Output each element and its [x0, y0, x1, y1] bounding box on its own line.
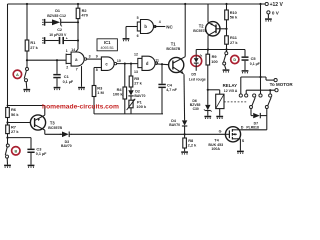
wire gate b out NC [154, 24, 173, 29]
svg-text:12: 12 [134, 52, 138, 56]
node junction R2 rail [77, 3, 79, 5]
relay RE1 coil [216, 83, 238, 108]
wire R3 to lower bus [93, 97, 95, 114]
ground C3 [28, 165, 35, 168]
wire relay linkage (dashed) [224, 101, 248, 103]
transistor T3 [30, 115, 62, 130]
ground D1 (left) [42, 19, 45, 26]
wire R9 down [207, 65, 209, 105]
wire output node [196, 49, 245, 51]
svg-text:BC547B: BC547B [166, 47, 180, 51]
op-amp IC1 gate c [101, 57, 116, 71]
pin 2 label [66, 66, 68, 70]
switch S2 (D) [223, 52, 228, 70]
watermark homemade-circuits.com [42, 103, 119, 110]
svg-text:D5: D5 [191, 73, 196, 77]
wire T2 emitter to rail [207, 4, 209, 22]
svg-text:BAV70: BAV70 [134, 94, 145, 98]
ground switch D [223, 70, 230, 73]
svg-text:5: 5 [137, 16, 139, 20]
relay contact arm 2 [265, 97, 271, 108]
wire T3 emitter feed [7, 105, 45, 116]
svg-text:BAV70: BAV70 [61, 144, 72, 148]
wire C1 to ground [56, 78, 58, 87]
pin 14 label [71, 48, 75, 52]
wire node to C5 [244, 50, 246, 57]
ground R8 [181, 152, 188, 155]
zener diode D6 [190, 99, 212, 111]
svg-text:NC: NC [166, 24, 173, 29]
contact terminal open (arm1 target) [253, 94, 256, 97]
resistor R5 [129, 76, 142, 87]
wire timing bus [94, 113, 163, 115]
svg-text:7: 7 [76, 67, 78, 71]
ground D6 [204, 117, 211, 120]
svg-text:D2: D2 [135, 90, 140, 94]
ground C2 (left) [42, 37, 45, 44]
wire R4 top [124, 64, 126, 87]
wire C2 left [45, 40, 59, 42]
terminal motor 1 [274, 79, 277, 82]
pin 6 label [137, 34, 139, 38]
svg-text:1: 1 [66, 49, 68, 53]
svg-text:PLR818: PLR818 [246, 126, 259, 130]
svg-text:T3: T3 [50, 120, 56, 125]
wire pin 8 input [94, 67, 101, 69]
wire gate a out to gate c [87, 58, 102, 60]
wire T2 collector to node [207, 35, 209, 50]
wire D2 to P1 [130, 96, 132, 100]
svg-text:56 k: 56 k [230, 15, 238, 20]
wire arm2 to drain line [266, 109, 268, 130]
resistor R4 [113, 87, 127, 99]
wire left +12V rail [7, 4, 9, 108]
wire gate d out to T1 base [156, 63, 169, 65]
wire C2 to R2 line [64, 39, 79, 41]
wire C5 to ground [244, 61, 246, 70]
wire C4 to timing bus [161, 88, 163, 114]
terminal motor 2 [275, 89, 278, 92]
capacitor C4 [158, 83, 177, 93]
svg-text:4,7 nF: 4,7 nF [166, 88, 177, 92]
IC1 label box [97, 39, 117, 51]
resistor R7 [6, 125, 20, 135]
pin 12 label [134, 52, 138, 56]
terminal +12 V [265, 2, 283, 8]
wire +12V top rail [8, 3, 266, 5]
svg-text:To MOTOR: To MOTOR [270, 82, 294, 87]
svg-text:G: G [219, 130, 222, 134]
svg-text:T1: T1 [171, 42, 177, 47]
op-amp IC1 gate b [126, 20, 156, 39]
svg-text:BC557B: BC557B [193, 29, 207, 33]
wire C1 drop [56, 60, 58, 74]
svg-text:27 k: 27 k [230, 40, 238, 45]
capacitor C4 tap [161, 64, 163, 84]
pin 11 label [155, 59, 159, 63]
resistor R8 [183, 134, 197, 148]
svg-text:0 V: 0 V [272, 10, 280, 15]
pin 4 label [159, 20, 161, 24]
ground C1 [54, 88, 61, 91]
svg-text:9: 9 [96, 55, 98, 59]
svg-text:0,1 µF: 0,1 µF [63, 80, 74, 84]
resistor R6 [6, 107, 20, 117]
wire R11 to node [225, 44, 227, 51]
node D marker [231, 55, 239, 63]
contact terminal m2 left [245, 94, 248, 97]
capacitor C1 [53, 74, 74, 84]
wire T1 emitter to D4 [183, 74, 186, 120]
ground C5 [242, 71, 249, 74]
transistor T1 [166, 42, 185, 74]
svg-text:BC557B: BC557B [48, 126, 62, 130]
potentiometer P1 [127, 99, 147, 110]
wire T1 collector to rail [184, 4, 186, 57]
wire R4 bottom [124, 99, 126, 114]
svg-text:D: D [241, 125, 244, 129]
wire to relay coil [208, 90, 220, 94]
svg-text:10 µF/25 V: 10 µF/25 V [49, 33, 67, 37]
wire motor 2 line [246, 89, 275, 94]
wire contact bridge [241, 77, 274, 94]
pin 1 label [66, 49, 68, 53]
switch S1 (A) [24, 68, 28, 89]
svg-text:RELAY: RELAY [223, 83, 238, 88]
wire R2 to IC pin 14 [75, 19, 78, 53]
svg-text:13: 13 [134, 70, 138, 74]
capacitor C5 [242, 56, 261, 66]
wire +12 feed down [259, 4, 261, 94]
svg-text:3: 3 [89, 54, 91, 58]
svg-text:C2: C2 [57, 28, 62, 32]
zener diode D1 [47, 9, 66, 26]
wire D1 anode [45, 21, 52, 23]
wire R2 top [77, 4, 79, 8]
svg-text:d: d [146, 61, 149, 66]
svg-text:0,1 µF: 0,1 µF [250, 62, 261, 66]
LED D5 [189, 55, 206, 82]
contact terminal m2 right [269, 94, 272, 97]
wire R1 drop [26, 4, 28, 40]
resistor R3 with pin8 wire [92, 68, 104, 97]
wire R10 to T2 base junction [225, 20, 227, 36]
svg-text:27 k: 27 k [30, 45, 38, 50]
svg-text:Led rouge: Led rouge [189, 77, 206, 81]
svg-text:B: B [14, 149, 17, 153]
wire R8 to ground [184, 148, 186, 151]
wire P1 bottom [130, 108, 132, 114]
svg-text:C4: C4 [167, 83, 173, 88]
diode D2 [128, 87, 145, 98]
svg-text:6: 6 [137, 34, 139, 38]
wire R1 to node [26, 51, 28, 67]
pin 3 label [89, 54, 91, 58]
pin 7 label [76, 67, 78, 71]
resistor R1 [25, 40, 38, 51]
pin 8 label [96, 68, 98, 72]
wire node to gate a input [27, 59, 66, 61]
svg-text:27 k: 27 k [134, 80, 142, 85]
capacitor C3 [27, 146, 47, 156]
svg-text:100 k: 100 k [113, 91, 124, 96]
diode D7 [246, 113, 260, 130]
svg-text:C30: C30 [193, 107, 199, 111]
op-amp IC1 gate d [138, 56, 158, 70]
svg-text:10: 10 [117, 59, 121, 63]
wire R10 top [226, 4, 228, 10]
ground switch B [4, 165, 11, 168]
svg-text:1 M: 1 M [97, 90, 104, 95]
resistor R9 [206, 54, 218, 65]
capacitor C2 [49, 28, 68, 44]
node A marker [13, 70, 21, 78]
pin 5 label [137, 16, 139, 20]
wire R5 top [130, 64, 132, 76]
svg-text:56 k: 56 k [11, 112, 19, 117]
ground switch A [23, 90, 30, 93]
wire gate bus [45, 133, 226, 135]
wire C3 to ground [30, 153, 32, 165]
pin 10 label [117, 59, 121, 63]
wire R6 to R7 [6, 118, 8, 126]
svg-text:27 k: 27 k [11, 129, 19, 134]
svg-text:100A: 100A [211, 147, 220, 151]
svg-text:D: D [233, 58, 236, 62]
wire T4 drain line [240, 129, 266, 131]
svg-text:T2: T2 [199, 23, 205, 28]
wire arm1 to D7 [251, 109, 253, 116]
pin 13 label [134, 70, 138, 74]
svg-text:BAV70: BAV70 [169, 123, 180, 127]
node junction +12 feed rail [259, 3, 261, 5]
wire pin 7 to ground [81, 66, 83, 87]
svg-text:C3: C3 [36, 146, 42, 151]
wire D7 to arm2 line [260, 115, 267, 117]
svg-text:470: 470 [81, 13, 88, 18]
wire relay coil to ground [219, 109, 221, 116]
node B marker [12, 147, 20, 155]
diode D3 [60, 131, 72, 148]
ground IC1 gate b input [123, 39, 130, 42]
svg-text:100 k: 100 k [136, 104, 147, 109]
terminal 0 V [267, 10, 280, 18]
wire gate c out to gate d [116, 63, 137, 65]
transistor T4 MOSFET [208, 125, 244, 151]
node junction R10 rail [225, 3, 227, 5]
pin 9 label [96, 55, 98, 59]
svg-text:12 V/5 A: 12 V/5 A [224, 89, 238, 93]
wire T3 base [8, 122, 31, 124]
node junction R1 rail [26, 3, 28, 5]
wire D6 to ground [207, 111, 209, 116]
svg-text:14: 14 [71, 48, 75, 52]
resistor R10 [225, 10, 238, 20]
node junction T1 collector rail [184, 3, 186, 5]
switch S3 (B) [5, 144, 9, 165]
wire node to D5 [195, 50, 197, 56]
svg-text:b: b [144, 24, 147, 29]
svg-text:100: 100 [211, 59, 218, 64]
resistor R2 [76, 8, 88, 19]
wire D1 cathode to R2 line [61, 21, 79, 23]
svg-text:2,2 k: 2,2 k [188, 142, 197, 147]
resistor R11 [225, 35, 239, 45]
wire to C3 [8, 138, 32, 149]
svg-text:0,1 µF: 0,1 µF [36, 152, 47, 156]
ground T4 source [237, 151, 244, 154]
wire T3 collector to bus [44, 130, 46, 134]
svg-text:8: 8 [96, 68, 98, 72]
op-amp IC1 gate a [66, 52, 87, 66]
svg-text:homemade-circuits.com: homemade-circuits.com [42, 103, 119, 110]
svg-text:11: 11 [155, 59, 159, 63]
contact terminal bridge [239, 94, 242, 97]
wire T4 source [237, 139, 241, 151]
svg-text:BZV85 C12: BZV85 C12 [47, 14, 66, 18]
label To MOTOR [270, 82, 294, 87]
wire D4 to gate bus [184, 126, 186, 135]
wire node to R9 [207, 50, 209, 55]
ground IC1 pin 7 [78, 88, 85, 91]
svg-text:4093 B1: 4093 B1 [101, 46, 114, 50]
wire R7 down [6, 134, 8, 144]
svg-text:+12 V: +12 V [270, 2, 284, 8]
svg-text:IC1: IC1 [104, 40, 111, 45]
ground 0V terminal [265, 19, 272, 22]
svg-text:4: 4 [159, 20, 161, 24]
transistor T2 [193, 22, 226, 36]
svg-text:A: A [16, 72, 19, 77]
svg-text:C5: C5 [251, 56, 257, 61]
ground relay coil [216, 117, 223, 120]
relay contact arm 1 [250, 97, 256, 108]
contact terminal +12 [259, 94, 262, 97]
svg-text:D1: D1 [55, 9, 60, 13]
wire T4 drain [237, 129, 241, 131]
svg-text:C1: C1 [64, 74, 70, 79]
svg-text:2: 2 [66, 66, 68, 70]
diode D4 [169, 119, 187, 127]
